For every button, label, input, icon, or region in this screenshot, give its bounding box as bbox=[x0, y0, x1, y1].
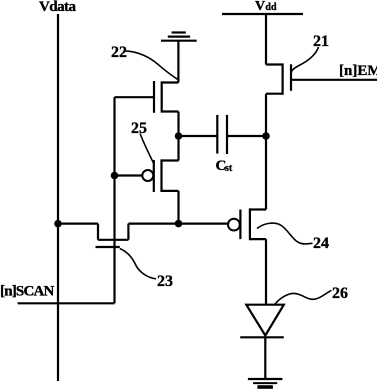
svg-text:[n]SCAN: [n]SCAN bbox=[0, 284, 55, 300]
svg-text:23: 23 bbox=[157, 273, 173, 290]
svg-text:[n]EM: [n]EM bbox=[339, 63, 377, 79]
svg-text:21: 21 bbox=[313, 33, 329, 50]
svg-text:Vdata: Vdata bbox=[39, 0, 76, 15]
svg-text:dd: dd bbox=[265, 2, 277, 13]
svg-text:22: 22 bbox=[111, 44, 127, 61]
svg-text:V: V bbox=[255, 0, 265, 14]
svg-text:26: 26 bbox=[332, 285, 348, 302]
svg-text:24: 24 bbox=[313, 235, 329, 252]
svg-text:st: st bbox=[225, 163, 233, 174]
svg-text:25: 25 bbox=[131, 120, 147, 137]
